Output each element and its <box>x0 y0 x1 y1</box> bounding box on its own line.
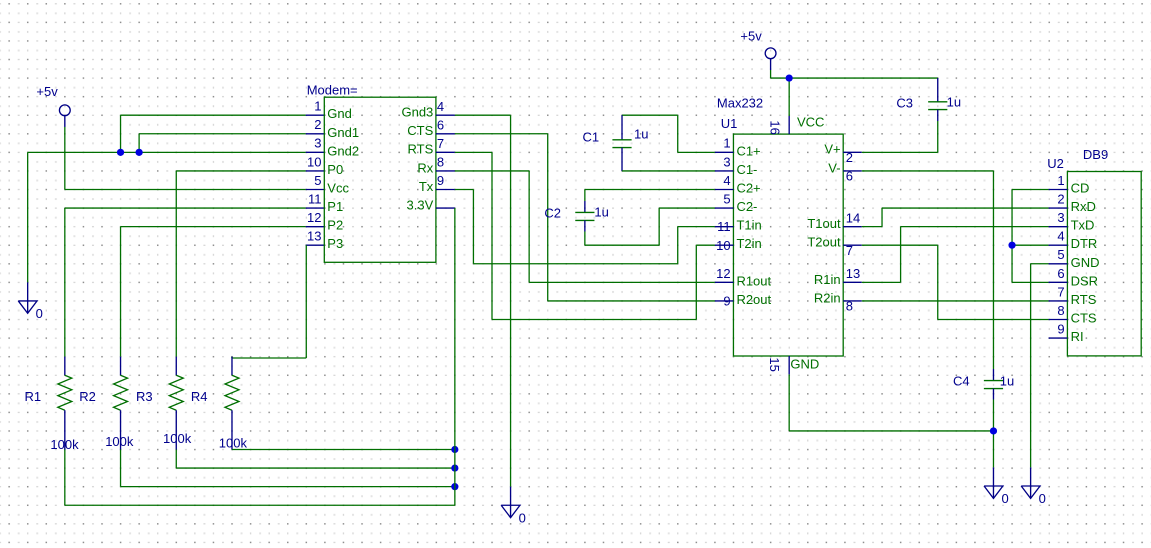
svg-text:12: 12 <box>307 210 321 225</box>
svg-text:4: 4 <box>1057 229 1064 244</box>
svg-text:3: 3 <box>723 154 730 169</box>
svg-text:7: 7 <box>1057 284 1064 299</box>
svg-text:R2out: R2out <box>736 292 771 307</box>
svg-text:2: 2 <box>846 150 853 165</box>
svg-text:R1in: R1in <box>814 272 841 287</box>
svg-text:11: 11 <box>308 191 322 206</box>
svg-text:C1+: C1+ <box>736 143 760 158</box>
svg-text:Rx: Rx <box>417 160 433 175</box>
svg-text:6: 6 <box>1057 266 1064 281</box>
svg-text:TxD: TxD <box>1071 218 1095 233</box>
svg-text:DSR: DSR <box>1071 273 1098 288</box>
svg-text:0: 0 <box>1001 491 1008 506</box>
svg-text:RxD: RxD <box>1071 199 1096 214</box>
svg-text:R2: R2 <box>79 389 96 404</box>
svg-text:RTS: RTS <box>1071 292 1097 307</box>
svg-text:8: 8 <box>437 155 444 170</box>
svg-text:P1: P1 <box>327 199 343 214</box>
svg-text:3: 3 <box>314 136 321 151</box>
svg-text:P2: P2 <box>327 218 343 233</box>
svg-text:CTS: CTS <box>407 123 433 138</box>
svg-text:+5v: +5v <box>36 84 58 99</box>
svg-text:2: 2 <box>314 117 321 132</box>
svg-text:16: 16 <box>767 120 782 134</box>
svg-text:Gnd: Gnd <box>327 106 352 121</box>
svg-text:1: 1 <box>1057 173 1064 188</box>
svg-text:R1out: R1out <box>736 273 771 288</box>
svg-text:T2in: T2in <box>736 236 761 251</box>
svg-text:Gnd2: Gnd2 <box>327 143 359 158</box>
svg-text:C2+: C2+ <box>736 180 760 195</box>
svg-text:0: 0 <box>519 510 526 525</box>
svg-text:Gnd1: Gnd1 <box>327 125 359 140</box>
svg-text:8: 8 <box>1057 303 1064 318</box>
svg-text:3.3V: 3.3V <box>407 197 434 212</box>
svg-text:11: 11 <box>717 219 731 234</box>
svg-text:1: 1 <box>314 99 321 114</box>
svg-text:100k: 100k <box>163 431 192 446</box>
svg-text:6: 6 <box>437 117 444 132</box>
svg-text:P3: P3 <box>327 236 343 251</box>
svg-text:9: 9 <box>723 294 730 309</box>
svg-text:T1out: T1out <box>807 216 841 231</box>
svg-text:RI: RI <box>1071 329 1084 344</box>
svg-text:10: 10 <box>307 154 321 169</box>
svg-text:CTS: CTS <box>1071 311 1097 326</box>
svg-text:Max232: Max232 <box>717 96 763 111</box>
svg-text:GND: GND <box>790 357 819 372</box>
svg-text:DB9: DB9 <box>1083 147 1108 162</box>
svg-text:100k: 100k <box>50 437 79 452</box>
svg-text:100k: 100k <box>219 436 248 451</box>
svg-text:T1in: T1in <box>736 218 761 233</box>
svg-text:6: 6 <box>846 169 853 184</box>
svg-text:R1: R1 <box>25 389 42 404</box>
svg-text:5: 5 <box>314 173 321 188</box>
svg-text:2: 2 <box>1057 191 1064 206</box>
svg-text:Gnd3: Gnd3 <box>401 105 433 120</box>
svg-text:V-: V- <box>828 160 840 175</box>
svg-text:R4: R4 <box>191 389 208 404</box>
svg-text:0: 0 <box>36 306 43 321</box>
svg-text:1u: 1u <box>594 205 608 220</box>
svg-text:7: 7 <box>846 243 853 258</box>
svg-text:3: 3 <box>1057 210 1064 225</box>
svg-text:13: 13 <box>846 266 860 281</box>
svg-text:9: 9 <box>1057 321 1064 336</box>
svg-text:1u: 1u <box>947 95 961 110</box>
svg-text:C1: C1 <box>583 129 600 144</box>
svg-text:5: 5 <box>1057 247 1064 262</box>
svg-text:8: 8 <box>846 299 853 314</box>
svg-text:1: 1 <box>723 136 730 151</box>
svg-text:T2out: T2out <box>807 235 841 250</box>
svg-text:C2-: C2- <box>736 199 757 214</box>
svg-text:10: 10 <box>716 238 730 253</box>
svg-text:1u: 1u <box>634 127 648 142</box>
svg-text:1u: 1u <box>1000 373 1014 388</box>
svg-text:14: 14 <box>846 210 860 225</box>
svg-text:4: 4 <box>723 173 730 188</box>
svg-text:GND: GND <box>1071 255 1100 270</box>
svg-text:VCC: VCC <box>797 115 824 130</box>
svg-text:13: 13 <box>307 229 321 244</box>
svg-text:R2in: R2in <box>814 290 841 305</box>
svg-text:U1: U1 <box>721 116 738 131</box>
svg-text:Vcc: Vcc <box>327 180 349 195</box>
svg-text:U2: U2 <box>1047 156 1064 171</box>
svg-text:C3: C3 <box>896 95 913 110</box>
svg-text:CD: CD <box>1071 180 1090 195</box>
svg-text:7: 7 <box>437 136 444 151</box>
svg-text:DTR: DTR <box>1071 236 1098 251</box>
svg-text:C4: C4 <box>953 373 970 388</box>
svg-text:12: 12 <box>716 266 730 281</box>
svg-text:C2: C2 <box>544 206 561 221</box>
svg-text:V+: V+ <box>824 142 840 157</box>
svg-text:Modem=: Modem= <box>307 83 358 98</box>
svg-text:C1-: C1- <box>736 162 757 177</box>
svg-text:5: 5 <box>723 191 730 206</box>
svg-text:9: 9 <box>437 173 444 188</box>
svg-text:RTS: RTS <box>408 142 434 157</box>
svg-text:R3: R3 <box>136 389 153 404</box>
svg-text:4: 4 <box>437 99 444 114</box>
svg-text:15: 15 <box>767 357 782 371</box>
svg-text:Tx: Tx <box>419 179 434 194</box>
svg-text:0: 0 <box>1039 491 1046 506</box>
svg-text:+5v: +5v <box>740 28 762 43</box>
svg-text:100k: 100k <box>105 434 134 449</box>
svg-text:P0: P0 <box>327 162 343 177</box>
